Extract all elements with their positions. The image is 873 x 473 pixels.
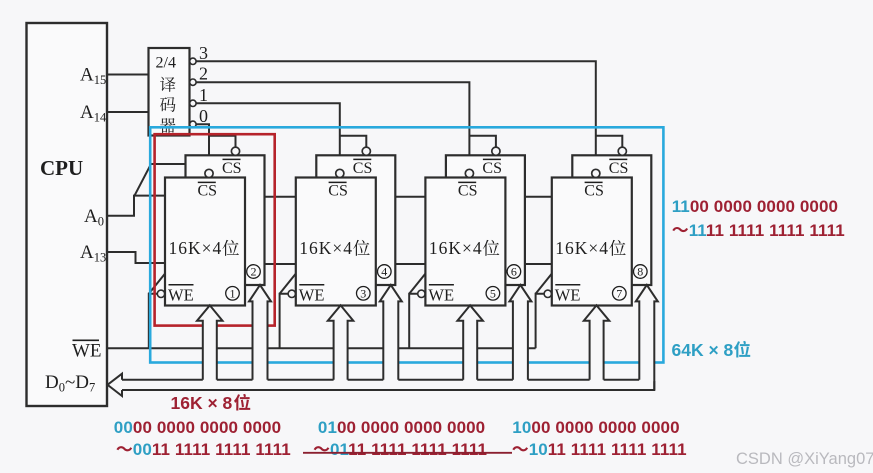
svg-text:CSDN @XiYang07: CSDN @XiYang07 — [736, 450, 873, 468]
chip 2 number label — [247, 265, 261, 279]
data bus branch arrow into chip 3 — [328, 305, 354, 381]
chip 5 CS bubble — [465, 169, 473, 177]
64K x 8bit scope box (cyan) — [150, 127, 663, 362]
chip 4 CS label — [353, 158, 371, 160]
memory chip 3 (front, 16K x 4) — [296, 178, 376, 306]
wire WE diagonal to hidden chip 2 — [149, 273, 166, 294]
data bus bottom line — [122, 381, 654, 390]
chip 7 WE label — [555, 284, 580, 286]
WE inverting bubble of chip 1 — [157, 290, 164, 297]
wire chip-select branch to hidden chip 4 — [340, 136, 367, 148]
chip 7 CS bubble — [592, 169, 600, 177]
svg-text:CS: CS — [584, 183, 604, 200]
svg-text:0000 0000 0000 0000: 0000 0000 0000 0000 — [114, 418, 281, 437]
memory chip 4 (back, 16K x 4) — [316, 155, 395, 285]
svg-text:16K×4: 16K×4 — [169, 238, 223, 258]
chip 6 CS label — [483, 158, 501, 160]
chip 4 CS bubble — [362, 147, 370, 155]
memory chip 6 (back, 16K x 4) — [446, 155, 525, 285]
svg-text:16K × 8: 16K × 8 — [171, 393, 233, 413]
chip 8 CS bubble — [618, 147, 626, 155]
svg-text:2/4: 2/4 — [156, 55, 176, 72]
16K x 8bit scope box (red) — [155, 134, 275, 325]
wire WE diagonal to hidden chip 8 — [536, 273, 553, 294]
svg-text:WE: WE — [72, 341, 102, 362]
memory chip 5 (front, 16K x 4) — [425, 178, 505, 306]
svg-text:D0~D7: D0~D7 — [45, 372, 95, 395]
address range annotation chip3 end 1011111111111111 — [512, 446, 528, 451]
chip 2 CS label — [223, 158, 241, 160]
chip 1 WE label — [169, 284, 194, 286]
chip 2 CS bubble — [231, 147, 239, 155]
decoder label 译 — [160, 77, 176, 92]
data bus D0~D7 hollow arrow into CPU — [108, 374, 123, 396]
decoder output 3 bubble — [190, 58, 196, 64]
svg-text:0: 0 — [199, 106, 208, 126]
svg-text:4: 4 — [381, 265, 387, 279]
chip 4 number label — [378, 265, 392, 279]
decoder output 0 bubble — [190, 121, 196, 127]
WE inverting bubble of chip 5 — [418, 290, 425, 297]
address bus connector between chip pair 2 and pair 3 (upper) — [393, 196, 427, 198]
chip 3 CS bubble — [336, 169, 344, 177]
memory chip 1 (front, 16K x 4) — [165, 178, 245, 306]
wire WE riser to chip 3 — [280, 294, 288, 348]
svg-text:1111 1111 1111 1111: 1111 1111 1111 1111 — [689, 221, 845, 240]
memory chip 7 (front, 16K x 4) — [552, 178, 632, 306]
svg-text:CPU: CPU — [40, 156, 83, 180]
memory chip 2 (back, 16K x 4) — [186, 155, 265, 285]
svg-text:WE: WE — [555, 286, 581, 305]
data bus branch arrow into chip 5 — [457, 305, 483, 381]
2/4 decoder box — [149, 48, 190, 136]
wire WE diagonal to hidden chip 4 — [280, 273, 297, 294]
address bus connector between chip pair 2 and pair 3 (lower) — [393, 263, 427, 265]
chip 7 number label — [613, 287, 627, 301]
svg-text:WE: WE — [299, 286, 325, 305]
svg-text:CS: CS — [353, 160, 373, 177]
data bus top line — [122, 379, 639, 381]
chip 3 number label — [357, 287, 371, 301]
address bus connector between chip pair 1 and pair 2 (upper) — [263, 196, 298, 198]
chip 5 number label — [486, 287, 500, 301]
wire WE riser to chip 7 — [536, 294, 544, 348]
data bus branch arrow into chip 4 — [380, 285, 402, 381]
wire A0 diagonal riser to upper chip row — [134, 164, 187, 197]
address range annotation chip4 end 1111111111111111 — [672, 227, 688, 232]
svg-text:CS: CS — [328, 183, 348, 200]
address range annotation chip2 end 0111111111111111 — [314, 446, 330, 451]
wire WE riser to chip 5 — [409, 294, 417, 348]
svg-text:7: 7 — [616, 287, 622, 301]
svg-text:6: 6 — [511, 265, 517, 279]
chip 5 WE label — [429, 284, 454, 286]
svg-text:CS: CS — [198, 183, 218, 200]
svg-text:0111 1111 1111 1111: 0111 1111 1111 1111 — [330, 440, 487, 459]
address bus connector between chip pair 1 and pair 2 (lower) — [263, 263, 298, 265]
svg-text:16K×4: 16K×4 — [299, 238, 353, 258]
data bus branch arrow into chip 8 — [636, 285, 658, 381]
wire A13 from CPU — [107, 252, 166, 263]
chip 1 CS label — [198, 181, 216, 183]
wire chip-select branch to hidden chip 6 — [469, 136, 496, 148]
svg-text:16K×4: 16K×4 — [555, 238, 609, 258]
svg-text:1100 0000 0000 0000: 1100 0000 0000 0000 — [672, 197, 838, 216]
svg-text:0011 1111 1111 1111: 0011 1111 1111 1111 — [133, 440, 291, 459]
wire WE riser to chip 1 — [149, 294, 157, 348]
wire WE bus from CPU — [107, 347, 536, 349]
decoder output 2 bubble — [190, 79, 196, 85]
WE inverting bubble of chip 7 — [544, 290, 551, 297]
data bus branch arrow into chip 1 — [197, 305, 223, 381]
svg-text:1000 0000 0000 0000: 1000 0000 0000 0000 — [512, 418, 679, 437]
CPU box — [27, 23, 108, 406]
svg-text:CS: CS — [222, 160, 242, 177]
svg-text:CS: CS — [458, 183, 478, 200]
svg-text:1: 1 — [230, 287, 236, 301]
decoder label 码 — [160, 97, 176, 112]
svg-text:WE: WE — [428, 286, 454, 305]
svg-text:WE: WE — [168, 286, 194, 305]
wire chip-select branch to hidden chip 2 — [209, 136, 236, 148]
chip 7 CS label — [585, 181, 603, 183]
svg-text:8: 8 — [637, 265, 643, 279]
wire A15 to decoder — [107, 74, 149, 76]
svg-text:1: 1 — [199, 85, 208, 105]
decoder output 1 bubble — [190, 100, 196, 106]
svg-text:CS: CS — [482, 160, 502, 177]
address range annotation chip1 end 0011111111111111 — [116, 446, 132, 451]
stray strike-through line artifact — [303, 452, 512, 454]
svg-text:0100 0000 0000 0000: 0100 0000 0000 0000 — [318, 418, 485, 437]
svg-text:5: 5 — [490, 287, 496, 301]
wire WE diagonal to hidden chip 6 — [409, 273, 426, 294]
svg-text:3: 3 — [360, 287, 366, 301]
chip 8 CS label — [609, 158, 627, 160]
svg-text:2: 2 — [251, 265, 257, 279]
wire chip-select 3 to chip pair 4 — [196, 61, 596, 170]
chip 8 number label — [634, 265, 648, 279]
wire A14 to decoder — [107, 111, 149, 113]
svg-text:1011 1111 1111 1111: 1011 1111 1111 1111 — [529, 440, 687, 459]
address bus connector between chip pair 3 and pair 4 (lower) — [523, 263, 554, 265]
address bus connector between chip pair 3 and pair 4 (upper) — [523, 196, 554, 198]
CPU pin label WE (active low) — [73, 339, 100, 341]
data bus branch arrow into chip 6 — [509, 285, 531, 381]
chip 1 CS bubble — [205, 169, 213, 177]
memory chip 8 (back, 16K x 4) — [572, 155, 651, 285]
WE inverting bubble of chip 3 — [288, 290, 295, 297]
wire A0 from CPU — [107, 196, 165, 216]
wire chip-select 2 to chip pair 3 — [196, 82, 469, 170]
chip 3 WE label — [299, 284, 324, 286]
chip 3 CS label — [329, 181, 347, 183]
svg-text:64K × 8: 64K × 8 — [672, 340, 734, 360]
decoder label 器 — [160, 118, 176, 133]
svg-text:CS: CS — [609, 160, 629, 177]
wire chip-select 1 to chip pair 2 — [196, 103, 340, 170]
chip 5 CS label — [458, 181, 476, 183]
chip 6 number label — [507, 265, 521, 279]
svg-text:3: 3 — [199, 43, 208, 63]
data bus branch arrow into chip 2 — [249, 285, 271, 381]
wire chip-select 0 to chip pair 1 — [196, 124, 209, 170]
svg-text:2: 2 — [199, 64, 208, 84]
chip 6 CS bubble — [492, 147, 500, 155]
svg-text:16K×4: 16K×4 — [429, 238, 483, 258]
wire chip-select branch to hidden chip 8 — [596, 136, 623, 148]
data bus branch arrow into chip 7 — [584, 305, 610, 381]
chip 1 number label — [226, 287, 240, 301]
